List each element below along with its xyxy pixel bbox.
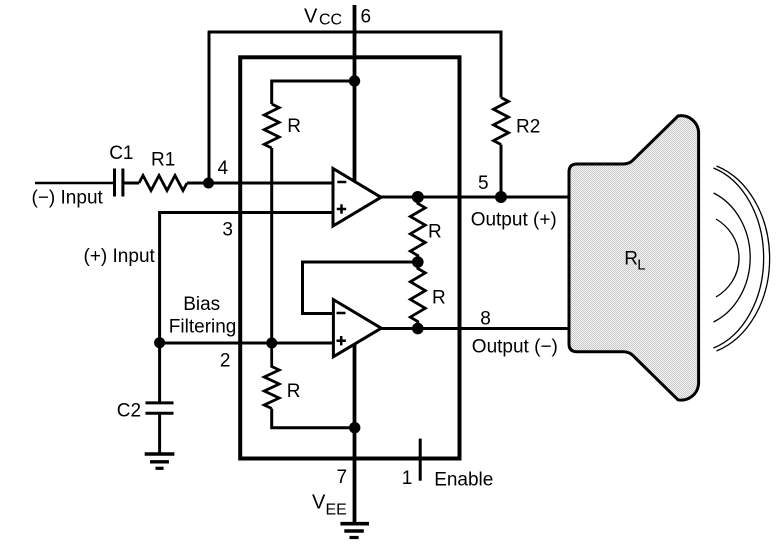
wire (+) input row to op-amp U1A bbox=[160, 213, 333, 344]
capacitor C1 bbox=[115, 169, 123, 197]
label (-) Input bbox=[32, 187, 104, 208]
svg-text:Filtering: Filtering bbox=[169, 317, 237, 338]
label Enable bbox=[434, 469, 493, 490]
label C1 bbox=[109, 143, 133, 164]
pin label 7 bbox=[337, 467, 348, 488]
node 5 junction dot bbox=[495, 191, 507, 203]
wire R1 to op-amp U1A inverting input (node 4 row) bbox=[187, 182, 333, 185]
svg-text:V: V bbox=[304, 6, 318, 28]
pin label 5 bbox=[478, 173, 489, 194]
svg-text:1: 1 bbox=[402, 468, 413, 489]
ground Vee bbox=[340, 524, 369, 538]
node bias-C2 junction dot bbox=[154, 337, 165, 348]
label (+) Input bbox=[84, 246, 156, 267]
svg-text:C1: C1 bbox=[109, 143, 133, 164]
label Vcc bbox=[304, 6, 342, 29]
svg-text:3: 3 bbox=[222, 219, 233, 240]
sound wave arc 2 bbox=[714, 193, 751, 322]
svg-text:Output (+): Output (+) bbox=[471, 210, 557, 231]
svg-text:R: R bbox=[428, 221, 442, 242]
sound wave arc 4 bbox=[717, 166, 770, 351]
label Bias bbox=[183, 294, 220, 315]
wire feedback from mid node to U1B inverting input bbox=[303, 262, 418, 314]
label R mid lower bbox=[432, 288, 446, 309]
svg-text:R2: R2 bbox=[516, 117, 540, 138]
label RL bbox=[624, 248, 645, 273]
wire Vcc line pin 6 bbox=[353, 5, 357, 182]
svg-text:(−) Input: (−) Input bbox=[32, 187, 104, 208]
svg-text:C2: C2 bbox=[117, 401, 141, 422]
node 4 junction dot bbox=[203, 178, 214, 189]
label R mid upper bbox=[428, 221, 442, 242]
svg-text:R: R bbox=[287, 381, 301, 402]
pin label 2 bbox=[220, 350, 231, 371]
svg-text:5: 5 bbox=[478, 173, 489, 194]
svg-text:R: R bbox=[287, 116, 301, 137]
speaker RL bbox=[569, 116, 699, 400]
pin label 3 bbox=[222, 219, 233, 240]
resistor R2 bbox=[494, 98, 509, 145]
wire feedback top rail bbox=[208, 32, 501, 98]
wire R2 to node 5 bbox=[500, 145, 503, 198]
svg-text:Output (−): Output (−) bbox=[472, 337, 558, 358]
sound wave arc 3 bbox=[714, 168, 764, 348]
wire op-amp U1A output to speaker (Output +) bbox=[381, 196, 569, 199]
svg-text:CC: CC bbox=[319, 12, 342, 29]
label Output (+) bbox=[471, 210, 557, 231]
capacitor C2 bbox=[146, 403, 174, 413]
op-amp U1A bbox=[333, 169, 381, 227]
wire bias node to C2 bbox=[158, 343, 161, 402]
wire C1 to R1 bbox=[124, 182, 139, 185]
svg-text:4: 4 bbox=[218, 158, 229, 179]
label Output (-) bbox=[472, 337, 558, 358]
resistor R mid upper bbox=[410, 197, 425, 262]
wire Vee line pin 7 bbox=[353, 344, 357, 523]
pin 1 Enable stub bbox=[419, 439, 422, 481]
node out1 junction dot bbox=[412, 191, 424, 203]
svg-text:2: 2 bbox=[220, 350, 231, 371]
wire bias lower resistor to Vee node bbox=[272, 409, 355, 428]
svg-text:R1: R1 bbox=[151, 150, 175, 171]
svg-text:8: 8 bbox=[480, 308, 491, 329]
resistor R bias lower bbox=[264, 343, 279, 409]
op-amp U1B bbox=[333, 300, 381, 357]
ground C2 bbox=[145, 454, 175, 468]
svg-text:Enable: Enable bbox=[434, 469, 493, 490]
svg-text:(+) Input: (+) Input bbox=[84, 246, 156, 267]
wire Vcc node to bias resistor R top bbox=[272, 81, 355, 104]
label R bias upper bbox=[287, 116, 301, 137]
wire C2 to ground bbox=[158, 414, 161, 453]
svg-text:7: 7 bbox=[337, 467, 348, 488]
pin label 8 bbox=[480, 308, 491, 329]
svg-text:L: L bbox=[637, 256, 645, 273]
node Vcc junction dot bbox=[349, 75, 360, 86]
label C2 bbox=[117, 401, 141, 422]
pin label 6 bbox=[361, 7, 372, 28]
node Vee junction dot bbox=[349, 422, 360, 433]
wire node 4 up to feedback rail bbox=[208, 32, 211, 183]
wire bias filtering row bbox=[160, 342, 334, 345]
node bias chain junction dot bbox=[266, 338, 277, 349]
svg-text:R: R bbox=[624, 248, 638, 269]
resistor R1 bbox=[139, 176, 187, 191]
IC box U1 outline bbox=[240, 57, 459, 458]
pin label 4 bbox=[218, 158, 229, 179]
label Vee bbox=[312, 492, 347, 519]
svg-text:6: 6 bbox=[361, 7, 372, 28]
sound wave arc 1 bbox=[716, 219, 739, 297]
resistor R mid lower bbox=[410, 262, 425, 329]
svg-text:Bias: Bias bbox=[183, 294, 220, 315]
wire (-) input lead into C1 bbox=[35, 182, 113, 185]
resistor R bias upper bbox=[264, 104, 279, 148]
wire op-amp U1B output to speaker (Output -) bbox=[381, 327, 569, 330]
svg-text:EE: EE bbox=[326, 501, 347, 518]
svg-text:R: R bbox=[432, 288, 446, 309]
node out2 junction dot bbox=[412, 323, 424, 335]
wire bias resistor to bias node bbox=[270, 148, 273, 343]
pin label 1 bbox=[402, 468, 413, 489]
node mid junction dot bbox=[412, 256, 424, 268]
label Filtering bbox=[169, 317, 237, 338]
label R bias lower bbox=[287, 381, 301, 402]
label R1 bbox=[151, 150, 175, 171]
svg-text:V: V bbox=[312, 492, 326, 514]
label R2 bbox=[516, 117, 540, 138]
